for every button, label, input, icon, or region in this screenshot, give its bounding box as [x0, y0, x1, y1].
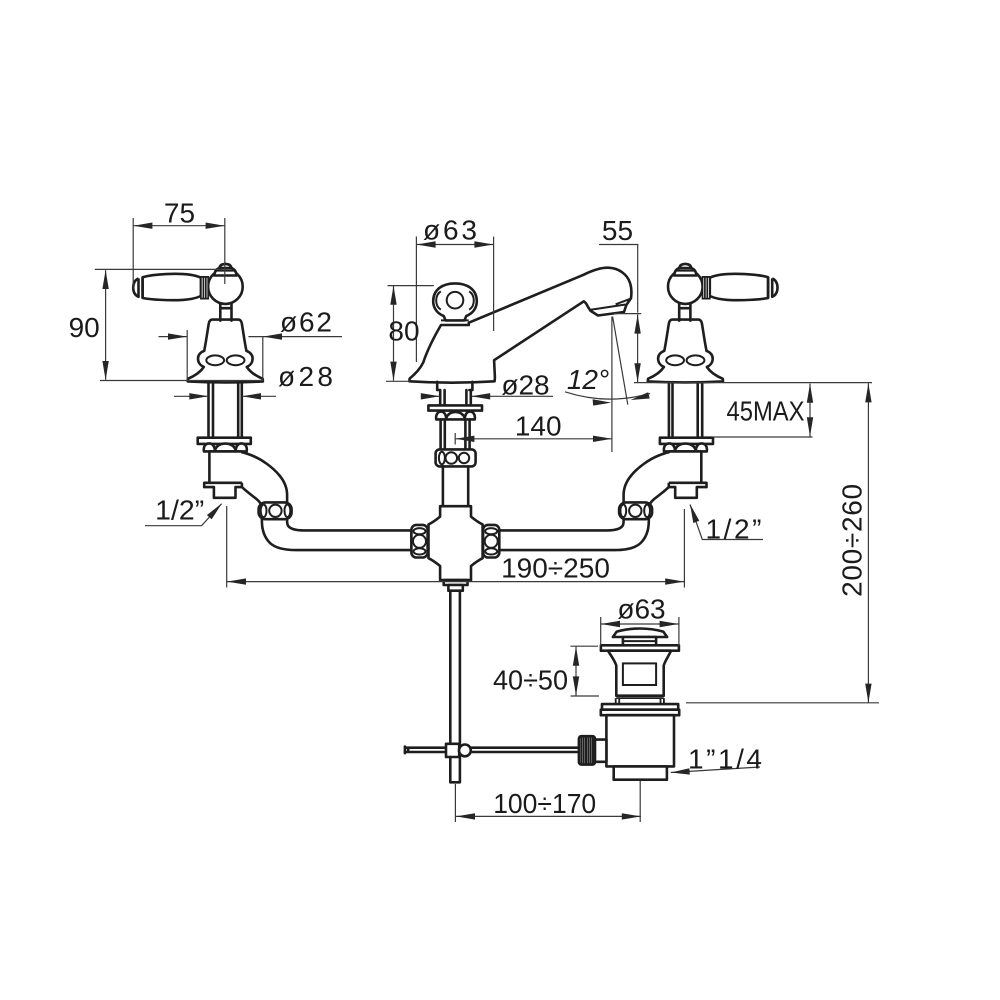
svg-text:1/2”: 1/2”: [155, 495, 204, 526]
svg-text:40÷50: 40÷50: [493, 665, 568, 696]
svg-text:190÷250: 190÷250: [501, 552, 610, 583]
svg-text:ø63: ø63: [617, 594, 665, 625]
svg-text:75: 75: [164, 198, 195, 229]
svg-text:100÷170: 100÷170: [493, 788, 596, 819]
svg-text:90: 90: [69, 312, 100, 343]
svg-text:1”1/4: 1”1/4: [688, 744, 762, 775]
svg-text:55: 55: [602, 215, 633, 246]
svg-text:140: 140: [515, 411, 562, 442]
svg-text:200÷260: 200÷260: [837, 484, 868, 597]
svg-text:ø63: ø63: [423, 215, 477, 246]
svg-text:1/2”: 1/2”: [706, 514, 762, 545]
svg-text:ø28: ø28: [278, 361, 333, 392]
svg-text:ø62: ø62: [280, 307, 332, 338]
svg-text:80: 80: [388, 316, 419, 347]
svg-text:12°: 12°: [567, 364, 609, 395]
svg-text:ø28: ø28: [501, 370, 549, 401]
svg-text:45MAX: 45MAX: [727, 396, 805, 427]
